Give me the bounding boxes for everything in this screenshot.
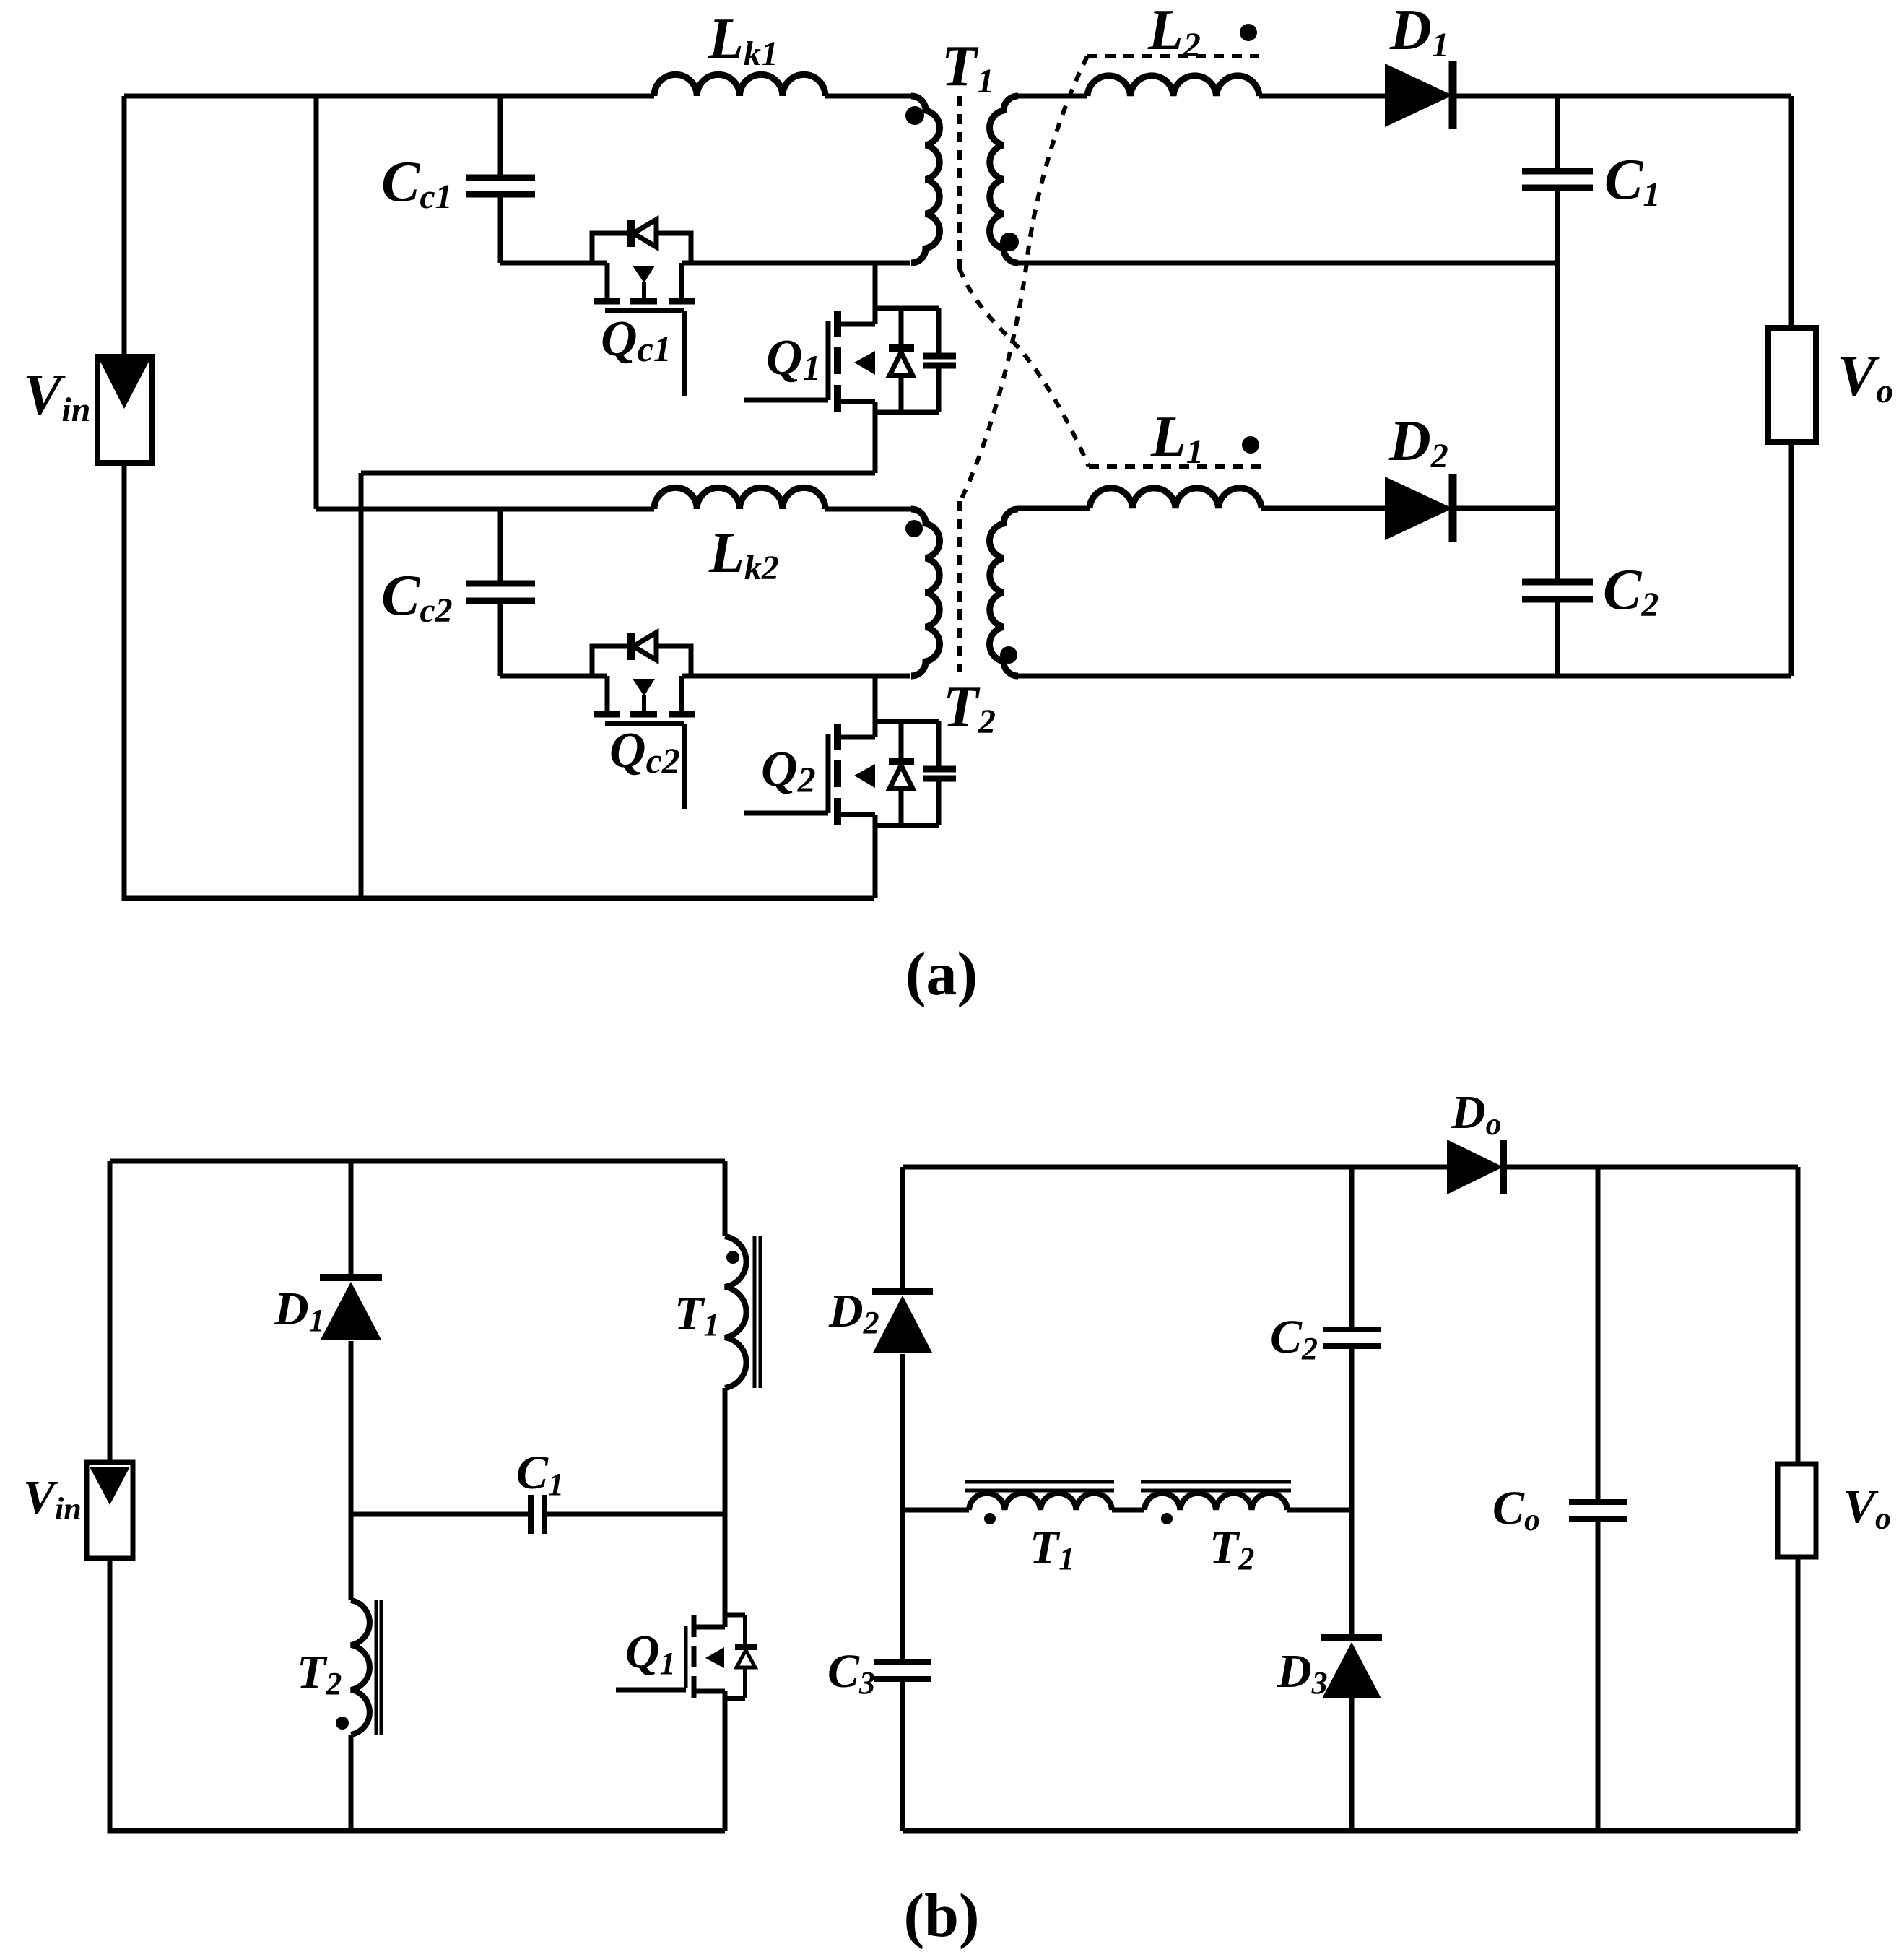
svg-text:(b): (b) bbox=[903, 1880, 979, 1950]
svg-text:(a): (a) bbox=[905, 939, 978, 1008]
